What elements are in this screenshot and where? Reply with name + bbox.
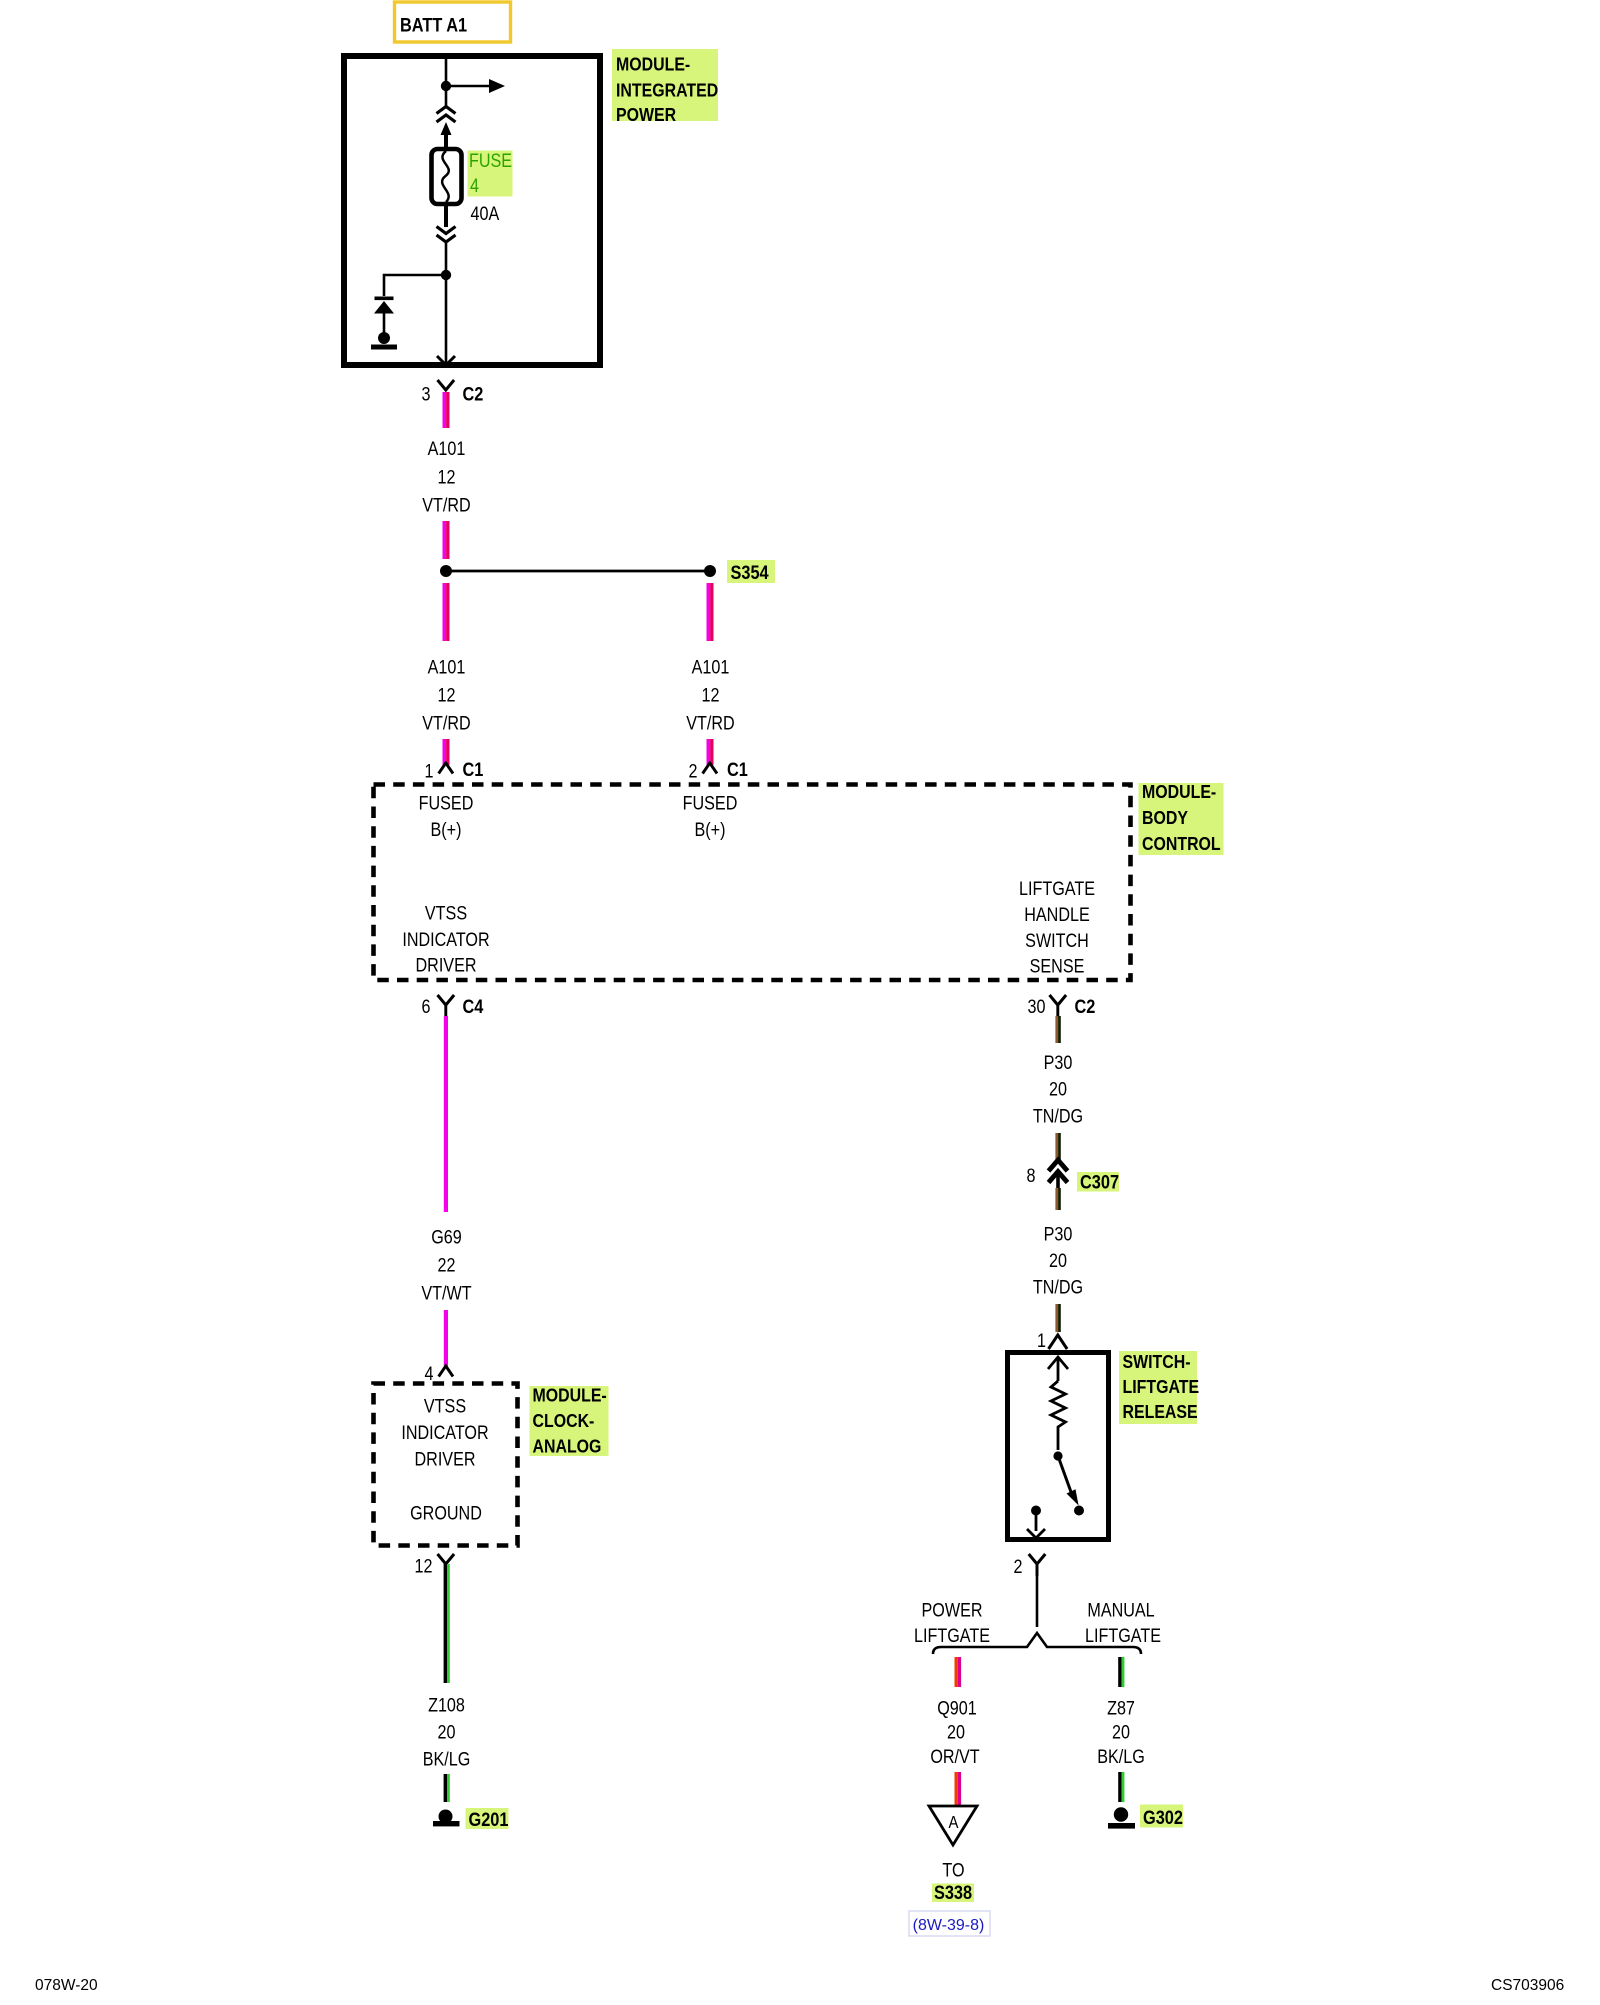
wire: battery feed entering module — [445, 59, 448, 108]
svg-text:G302: G302 — [1143, 1807, 1183, 1828]
label TO S338 (8W-39-8) — [909, 1859, 990, 1936]
svg-text:C4: C4 — [463, 996, 484, 1017]
svg-text:A101: A101 — [428, 656, 466, 678]
svg-text:G201: G201 — [469, 1809, 509, 1830]
label S354 — [727, 560, 775, 583]
svg-text:C2: C2 — [1075, 996, 1096, 1017]
svg-text:MODULE-: MODULE- — [533, 1384, 607, 1405]
svg-text:1: 1 — [1037, 1330, 1046, 1352]
ground (internal module ground) — [371, 332, 397, 350]
wire A101 right branch below splice — [707, 583, 714, 641]
svg-text:6: 6 — [422, 996, 431, 1018]
svg-text:C1: C1 — [463, 759, 484, 780]
svg-text:P30: P30 — [1044, 1052, 1073, 1074]
label MODULE-BODY CONTROL — [1139, 781, 1224, 855]
svg-text:POWER: POWER — [922, 1599, 983, 1621]
svg-text:OR/VT: OR/VT — [930, 1746, 980, 1768]
svg-text:CONTROL: CONTROL — [1142, 833, 1221, 854]
module U1: MODULE-INTEGRATED POWER (box) — [344, 56, 600, 365]
fuse F4 (element) — [432, 149, 462, 204]
label MANUAL LIFTGATE — [1085, 1599, 1161, 1646]
label FUSED B(+) (pin 2 function) — [683, 792, 738, 840]
connector symbol (double chevron up) on feed — [437, 107, 456, 123]
svg-text:2: 2 — [1014, 1556, 1023, 1578]
wire P30 segment (below C307) — [1055, 1188, 1060, 1210]
svg-text:TN/DG: TN/DG — [1033, 1276, 1083, 1298]
switch S1: SWITCH-LIFTGATE RELEASE (box) — [1008, 1353, 1109, 1540]
svg-text:20: 20 — [438, 1721, 456, 1743]
pin 30 of connector C2 (female symbol) — [1028, 995, 1096, 1017]
svg-text:S354: S354 — [731, 562, 769, 583]
svg-text:12: 12 — [702, 684, 720, 706]
splice S354 (junction dots and tie line) — [440, 565, 716, 577]
label VTSS INDICATOR DRIVER (pin 4 function) — [401, 1395, 488, 1470]
label Z87 20 BK/LG — [1097, 1697, 1145, 1767]
label MODULE-CLOCK-ANALOG — [530, 1384, 609, 1456]
svg-text:LIFTGATE: LIFTGATE — [1123, 1376, 1200, 1397]
svg-text:LIFTGATE: LIFTGATE — [914, 1625, 990, 1647]
wire Z87 segment (label to ground) — [1118, 1772, 1124, 1802]
wire: below fuse — [444, 204, 448, 227]
svg-text:22: 22 — [438, 1254, 456, 1276]
svg-text:Q901: Q901 — [937, 1697, 976, 1719]
wire P30 segment (label to switch pin 1) — [1055, 1304, 1060, 1332]
brace: circuit option split — [933, 1633, 1141, 1654]
svg-text:CLOCK-: CLOCK- — [533, 1410, 595, 1431]
wire P30 segment (label to connector C307) — [1055, 1133, 1060, 1160]
label LIFTGATE HANDLE SWITCH SENSE (pin 30 function) — [1019, 878, 1095, 977]
svg-text:INTEGRATED: INTEGRATED — [616, 79, 718, 100]
pin 1 of liftgate release switch (male symbol) — [1037, 1330, 1067, 1352]
wire A101 right segment to pin 2 — [707, 739, 714, 765]
svg-text:P30: P30 — [1044, 1223, 1073, 1245]
battery feed label BATT A1 — [395, 2, 511, 42]
svg-text:(8W-39-8): (8W-39-8) — [913, 1917, 985, 1934]
svg-text:B(+): B(+) — [431, 819, 462, 841]
svg-text:B(+): B(+) — [695, 819, 726, 841]
svg-text:LIFTGATE: LIFTGATE — [1085, 1625, 1161, 1647]
svg-text:FUSE: FUSE — [469, 150, 512, 172]
svg-text:4: 4 — [470, 175, 479, 197]
svg-text:20: 20 — [1049, 1078, 1067, 1100]
svg-text:VT/RD: VT/RD — [422, 712, 470, 734]
wire Z87 20 BK/LG segment (brace to label) — [1118, 1657, 1124, 1687]
svg-text:FUSED: FUSED — [419, 792, 474, 814]
svg-text:DRIVER: DRIVER — [415, 1448, 476, 1470]
svg-text:12: 12 — [438, 466, 456, 488]
ground G201 (symbol) — [433, 1810, 460, 1827]
module U2: MODULE-BODY CONTROL (dashed box) — [374, 785, 1131, 981]
svg-text:30: 30 — [1028, 996, 1046, 1018]
pin 3 of connector C2 (female symbol) — [422, 380, 484, 405]
label P30 20 TN/DG (lower) — [1033, 1223, 1083, 1298]
off-page connector A (triangle) — [929, 1806, 977, 1845]
svg-text:ANALOG: ANALOG — [533, 1435, 602, 1456]
svg-text:C2: C2 — [463, 383, 484, 404]
svg-text:4: 4 — [425, 1363, 434, 1385]
svg-text:1: 1 — [425, 760, 434, 782]
svg-text:20: 20 — [1112, 1721, 1130, 1743]
svg-text:20: 20 — [1049, 1250, 1067, 1272]
node: diode branch junction — [441, 270, 451, 280]
label Z108 20 BK/LG — [423, 1694, 471, 1770]
wire P30 20 TN/DG segment (pin 30 to label) — [1055, 1016, 1060, 1043]
module U3: MODULE-CLOCK-ANALOG (dashed box) — [374, 1384, 518, 1546]
label FUSE 4 (highlight) — [468, 150, 513, 197]
wire Q901 20 OR/VT segment (brace to label) — [955, 1657, 962, 1687]
svg-text:MANUAL: MANUAL — [1087, 1599, 1154, 1621]
svg-text:INDICATOR: INDICATOR — [402, 929, 489, 951]
resistor (switch sense resistor) — [1051, 1381, 1066, 1450]
switch contact (movable arm with arrowhead) — [1053, 1451, 1084, 1515]
wire: fuse output down to junction — [445, 243, 448, 275]
switch contact (fixed, to pin 2) — [1027, 1506, 1045, 1539]
wire A101 segment (label to splice) — [443, 521, 450, 559]
svg-text:DRIVER: DRIVER — [416, 954, 477, 976]
wire A101 left branch below splice — [443, 583, 450, 641]
svg-text:SWITCH-: SWITCH- — [1123, 1351, 1191, 1372]
wire G69 22 VT/WT segment (pin 6 to label) — [444, 1016, 448, 1212]
ground G302 (symbol) — [1108, 1807, 1135, 1828]
svg-text:MODULE-: MODULE- — [1142, 781, 1216, 802]
svg-text:VT/RD: VT/RD — [422, 494, 470, 516]
svg-text:TN/DG: TN/DG — [1033, 1105, 1083, 1127]
svg-text:3: 3 — [422, 383, 431, 405]
label P30 20 TN/DG (upper) — [1033, 1052, 1083, 1127]
wire: switch pin 2 down to split — [1036, 1564, 1039, 1627]
svg-text:LIFTGATE: LIFTGATE — [1019, 878, 1095, 900]
svg-text:A101: A101 — [428, 438, 466, 460]
switch internals: entry arrowhead pin 1 — [1048, 1357, 1068, 1381]
label G201 — [466, 1808, 509, 1830]
svg-text:RELEASE: RELEASE — [1123, 1401, 1198, 1422]
wire Q901 segment (label to off-page connector) — [955, 1772, 962, 1805]
node: internal feed junction — [441, 81, 451, 91]
svg-text:VTSS: VTSS — [424, 1395, 466, 1417]
svg-text:INDICATOR: INDICATOR — [401, 1422, 488, 1444]
svg-text:SWITCH: SWITCH — [1025, 930, 1089, 952]
svg-text:078W-20: 078W-20 — [35, 1977, 98, 1994]
pin 4 of clock module (male symbol) — [425, 1363, 454, 1385]
pin 2 of connector C1 (male symbol) — [689, 759, 749, 782]
wire: feed into fuse (with up arrowhead) — [441, 122, 452, 148]
svg-text:MODULE-: MODULE- — [616, 53, 690, 74]
svg-text:SENSE: SENSE — [1030, 955, 1085, 977]
pin 6 of connector C4 (female symbol) — [422, 995, 484, 1017]
svg-text:VT/WT: VT/WT — [421, 1282, 471, 1304]
label Q901 20 OR/VT — [930, 1697, 980, 1767]
label G302 — [1140, 1805, 1183, 1829]
svg-text:A: A — [949, 1813, 959, 1832]
pin 1 of connector C1 (male symbol) — [425, 759, 484, 782]
svg-text:C307: C307 — [1080, 1171, 1119, 1192]
connector symbol (double chevron down) below fuse — [437, 227, 456, 243]
svg-text:8: 8 — [1027, 1165, 1036, 1187]
svg-text:S338: S338 — [934, 1882, 972, 1903]
wire A101 left segment to pin 1 — [443, 739, 450, 765]
svg-text:BODY: BODY — [1142, 807, 1188, 828]
label POWER LIFTGATE — [914, 1599, 990, 1646]
label MODULE-INTEGRATED POWER — [612, 49, 718, 125]
wire Z108 20 BK/LG segment (pin 12 to label) — [444, 1564, 450, 1683]
svg-text:VTSS: VTSS — [425, 902, 467, 924]
wire: branch arrow to other circuits — [446, 79, 505, 93]
diode D (internal suppression diode) — [374, 297, 394, 334]
wire A101 12 VT/RD segment (pin3 to label) — [443, 392, 450, 428]
svg-text:40A: 40A — [471, 203, 500, 225]
wire: branch to internal diode — [384, 275, 446, 296]
svg-text:Z87: Z87 — [1107, 1697, 1135, 1719]
svg-text:BK/LG: BK/LG — [1097, 1746, 1145, 1768]
svg-text:G69: G69 — [431, 1226, 462, 1248]
svg-text:POWER: POWER — [616, 104, 677, 125]
connector C307 pin 8 (double chevron in-line connector) — [1027, 1160, 1068, 1188]
svg-text:BATT A1: BATT A1 — [400, 14, 467, 35]
label C307 — [1077, 1171, 1119, 1192]
wire Z108 segment (label to ground) — [444, 1774, 450, 1802]
svg-text:Z108: Z108 — [428, 1694, 465, 1716]
svg-text:VT/RD: VT/RD — [686, 712, 734, 734]
wire G69 segment (label to pin 4) — [444, 1310, 448, 1366]
label A101 12 VT/RD (right lower) — [686, 656, 734, 734]
label A101 12 VT/RD (left lower) — [422, 656, 470, 734]
svg-text:BK/LG: BK/LG — [423, 1748, 471, 1770]
label VTSS INDICATOR DRIVER (pin 6 function) — [402, 902, 489, 976]
svg-text:CS703906: CS703906 — [1491, 1977, 1564, 1994]
svg-text:GROUND: GROUND — [410, 1502, 482, 1524]
svg-text:FUSED: FUSED — [683, 792, 738, 814]
svg-text:2: 2 — [689, 760, 698, 782]
wire: feed to pin 3 with arrowhead at box edge — [437, 277, 455, 365]
label G69 22 VT/WT — [421, 1226, 471, 1304]
svg-text:C1: C1 — [727, 759, 748, 780]
label FUSED B(+) (pin 1 function) — [419, 792, 474, 840]
pin 12 of clock module (female symbol) — [415, 1554, 455, 1577]
label A101 12 VT/RD (upper) — [422, 438, 470, 516]
svg-text:A101: A101 — [692, 656, 730, 678]
svg-text:12: 12 — [415, 1555, 433, 1577]
pin 2 of liftgate release switch (female symbol) — [1014, 1554, 1046, 1577]
label SWITCH-LIFTGATE RELEASE — [1119, 1351, 1199, 1424]
svg-text:TO: TO — [942, 1859, 964, 1881]
svg-text:20: 20 — [947, 1721, 965, 1743]
svg-text:12: 12 — [438, 684, 456, 706]
svg-text:HANDLE: HANDLE — [1024, 904, 1089, 926]
